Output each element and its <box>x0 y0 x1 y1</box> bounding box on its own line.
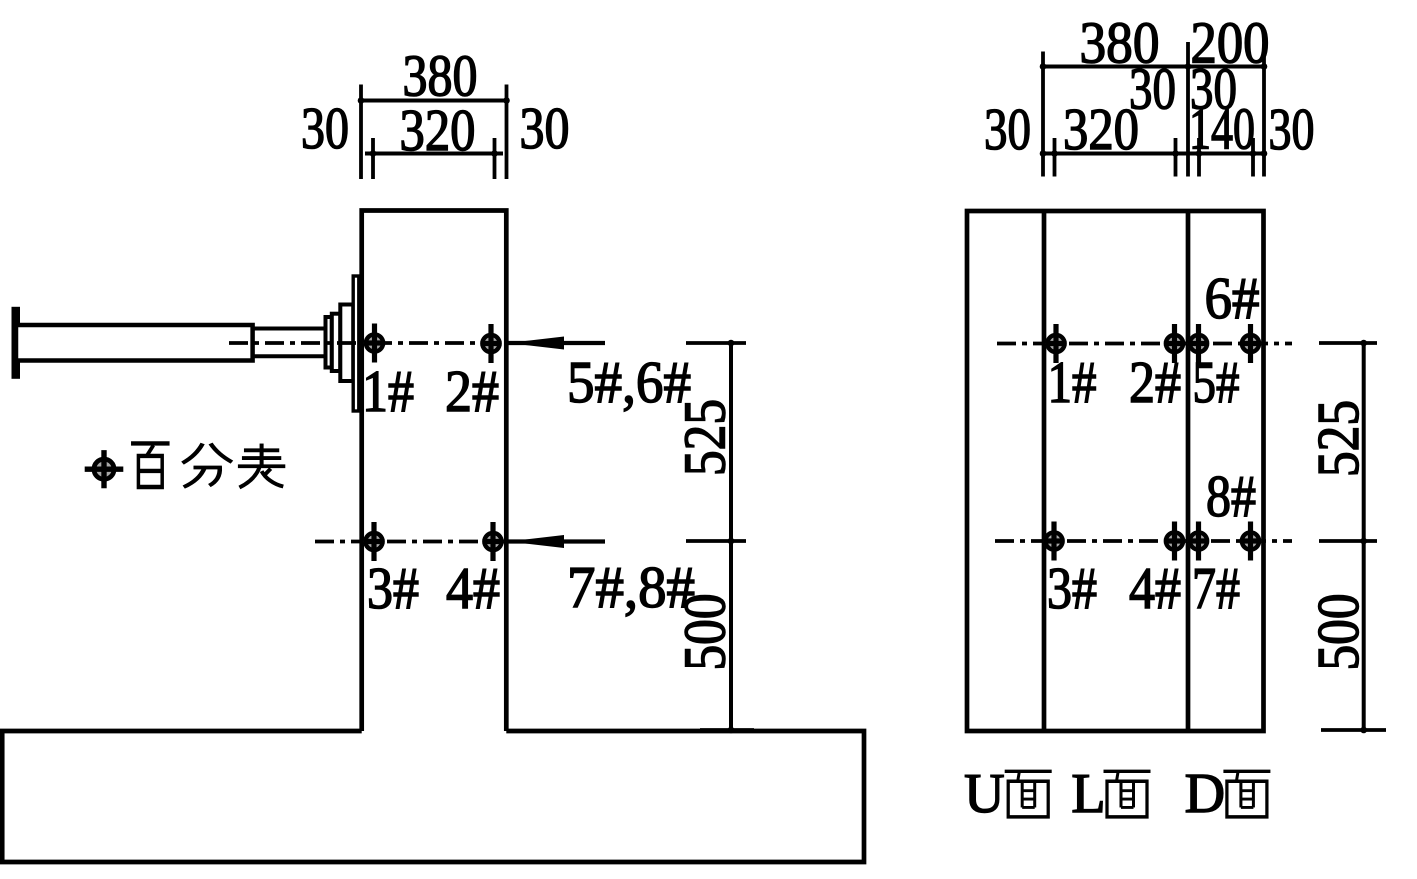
centerline row2 left <box>315 540 508 544</box>
plate C <box>340 305 353 382</box>
svg-text:140: 140 <box>1189 96 1255 162</box>
svg-text:8#: 8# <box>1206 463 1256 529</box>
top dim extension x1043 <box>1041 52 1045 177</box>
right vdim tick y541 <box>1319 539 1377 543</box>
gauge 4# right <box>1164 522 1185 561</box>
right vdim tick y730 <box>1321 728 1386 732</box>
svg-text:30: 30 <box>1269 96 1315 162</box>
dim 380 dots <box>358 97 365 104</box>
svg-text:30: 30 <box>301 95 349 161</box>
svg-text:30: 30 <box>520 95 570 161</box>
vertical dim line left figure <box>729 343 733 730</box>
svg-text:3#: 3# <box>367 555 419 621</box>
gauge 8# right <box>1240 522 1261 561</box>
jack rod <box>252 329 326 357</box>
gauge 1# right <box>1045 324 1066 363</box>
plate A <box>326 317 332 368</box>
gauge 1# <box>364 324 385 363</box>
arrow row2 <box>508 539 605 543</box>
dim 380 line <box>359 99 509 103</box>
legend gauge symbol <box>85 450 124 488</box>
svg-text:D: D <box>1185 763 1225 825</box>
vdim tick y343 <box>686 341 746 345</box>
svg-text:2#: 2# <box>1129 349 1181 415</box>
svg-text:U: U <box>964 763 1004 825</box>
svg-text:L: L <box>1071 763 1105 825</box>
svg-text:4#: 4# <box>1129 555 1181 621</box>
dim 320 line <box>365 152 503 156</box>
unfolded faces rectangle <box>967 211 1264 731</box>
dim row A line <box>1041 65 1266 69</box>
dim 380 extension left <box>359 85 363 180</box>
svg-text:525: 525 <box>672 399 738 476</box>
plate B <box>332 314 341 371</box>
gauge 7# right <box>1188 522 1209 561</box>
jack end cap <box>12 307 21 379</box>
jack cylinder <box>16 325 253 361</box>
right vdim tick y343 <box>1319 341 1377 345</box>
dim row A dots <box>1040 63 1047 70</box>
top dim extension x1188 <box>1186 42 1190 177</box>
svg-text:1#: 1# <box>362 358 414 424</box>
right vdim dots <box>1360 340 1367 347</box>
svg-text:6#: 6# <box>1205 265 1260 331</box>
svg-text:7#: 7# <box>1192 555 1240 621</box>
gauge 4# <box>482 522 503 561</box>
svg-text:320: 320 <box>1063 96 1139 162</box>
svg-text:500: 500 <box>672 594 738 671</box>
tall bearing plate <box>353 276 359 411</box>
centerline row1 left <box>229 341 508 345</box>
gauge 6# right <box>1240 324 1261 363</box>
svg-text:500: 500 <box>1305 594 1371 671</box>
top dim extension x1264 <box>1262 52 1266 177</box>
face divider L/D <box>1186 211 1191 731</box>
dim 380 extension right <box>505 85 509 180</box>
vdim tick y541 <box>686 539 746 543</box>
svg-text:2#: 2# <box>445 358 499 424</box>
vertical dim line right figure <box>1362 343 1366 730</box>
vdim dots <box>728 340 735 347</box>
face divider U/L <box>1042 211 1047 731</box>
base block <box>2 731 864 862</box>
centerline row2 right <box>995 539 1292 543</box>
svg-text:320: 320 <box>400 97 476 163</box>
gauge 2# <box>480 324 501 363</box>
dim row C dots <box>1040 150 1047 157</box>
column outline <box>362 211 507 732</box>
svg-text:1#: 1# <box>1048 349 1097 415</box>
vdim tick y730 <box>700 728 754 732</box>
gauge 3# right <box>1043 522 1064 561</box>
svg-text:5#: 5# <box>1193 349 1240 415</box>
svg-text:525: 525 <box>1305 400 1371 477</box>
gauge 5# right <box>1188 324 1209 363</box>
dim 320 ticks <box>371 138 375 179</box>
dim row C ticks <box>1053 138 1057 177</box>
svg-text:30: 30 <box>984 96 1031 162</box>
legend text 百分表 <box>131 443 170 487</box>
dim row C line <box>1041 152 1266 156</box>
centerline row1 right <box>997 342 1292 346</box>
gauge 2# right <box>1164 324 1185 363</box>
arrow row1 <box>508 341 605 345</box>
gauge 3# <box>363 522 384 561</box>
svg-text:4#: 4# <box>446 555 500 621</box>
dim 320 dots <box>370 150 377 157</box>
svg-text:3#: 3# <box>1047 555 1097 621</box>
